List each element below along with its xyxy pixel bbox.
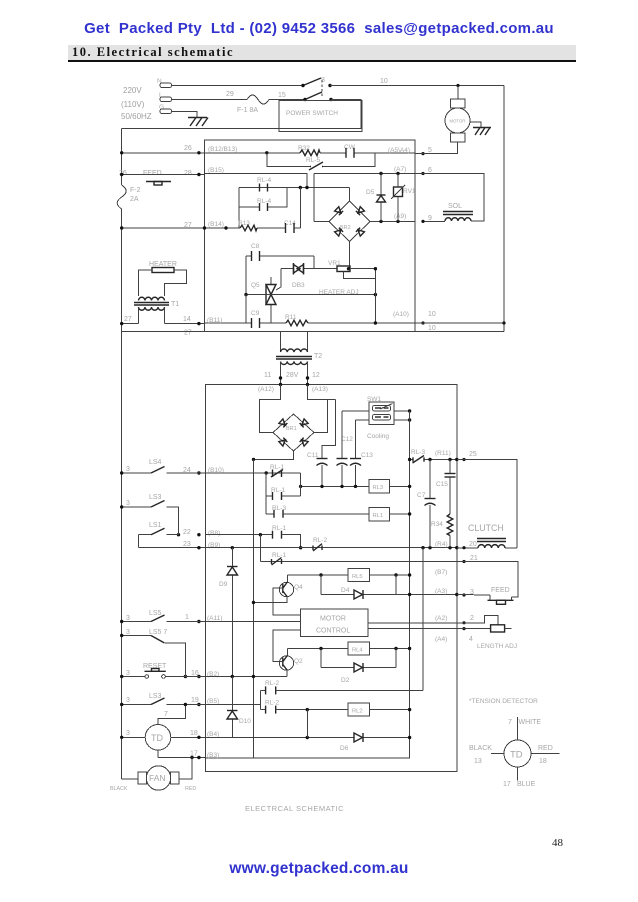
svg-text:POWER SWITCH: POWER SWITCH [286, 110, 338, 117]
wire 14 (B11) [165, 316, 223, 325]
svg-text:14: 14 [183, 316, 191, 323]
svg-text:(A10): (A10) [393, 311, 409, 318]
svg-text:27: 27 [124, 316, 132, 323]
svg-text:(B3): (B3) [207, 752, 219, 759]
wire 21 row [457, 555, 518, 597]
svg-text:2: 2 [470, 615, 474, 622]
diode D5 [366, 174, 386, 222]
svg-text:LS3: LS3 [149, 693, 162, 700]
svg-text:3: 3 [126, 629, 130, 636]
svg-text:RL-3: RL-3 [411, 449, 425, 456]
svg-text:LS5 7: LS5 7 [149, 629, 167, 636]
svg-text:BLUE: BLUE [517, 781, 536, 788]
terminal G [159, 104, 172, 114]
svg-text:LS3: LS3 [149, 494, 162, 501]
right vertical wire 10 [503, 86, 505, 332]
svg-text:RL-1: RL-1 [272, 552, 286, 559]
wire 9 (A9) row [314, 213, 432, 223]
wire 18 (B4) row with D6 [171, 710, 411, 752]
svg-text:23: 23 [183, 541, 191, 548]
svg-text:25: 25 [469, 451, 477, 458]
svg-text:(A5\A4): (A5\A4) [388, 147, 410, 154]
relay contact RL-4 (lower) [239, 188, 287, 212]
power switch box [279, 101, 362, 132]
svg-text:Q5: Q5 [251, 282, 260, 289]
svg-text:F-2: F-2 [130, 187, 141, 194]
limit switch LS4 [120, 459, 205, 475]
power switch pole 2 [303, 80, 332, 101]
svg-text:LENGTH ADJ: LENGTH ADJ [477, 643, 517, 650]
svg-text:RL-4: RL-4 [257, 177, 271, 184]
vertical rail x423 [422, 548, 424, 691]
relay coil RL4 row [287, 642, 411, 655]
capacitor CW [344, 144, 356, 158]
node (A13) [306, 383, 328, 393]
SW1 left wires [342, 411, 369, 420]
wire G to ground [171, 112, 197, 118]
svg-text:RL4: RL4 [352, 648, 363, 654]
feed solenoid [457, 587, 514, 604]
svg-text:12: 12 [312, 372, 320, 379]
svg-text:RL-2: RL-2 [313, 537, 327, 544]
wire (R11) 25 row [408, 450, 477, 461]
terminal L [159, 92, 172, 102]
wire 28 (B15) row [184, 167, 307, 188]
svg-text:C13: C13 [361, 452, 373, 459]
svg-text:3: 3 [126, 670, 130, 677]
svg-text:L: L [159, 92, 163, 99]
svg-text:R34: R34 [431, 521, 443, 528]
svg-text:DB3: DB3 [292, 282, 305, 289]
svg-text:RED: RED [185, 786, 196, 792]
svg-text:5: 5 [428, 147, 432, 154]
svg-text:Q4: Q4 [294, 584, 303, 591]
motor M1 [415, 99, 470, 154]
node (A12) [258, 383, 282, 393]
svg-text:(B15): (B15) [208, 167, 224, 174]
power switch pole 1 [301, 78, 331, 87]
svg-text:WHITE: WHITE [519, 719, 542, 726]
svg-text:(B11): (B11) [207, 317, 222, 324]
wire 7 to time delay [158, 703, 187, 725]
svg-text:(A2): (A2) [435, 615, 447, 622]
wire 1 (A11) row [185, 614, 301, 623]
relay contact RL-2 (upper pair) [261, 680, 423, 710]
svg-text:(B8): (B8) [208, 530, 220, 537]
svg-text:6: 6 [428, 167, 432, 174]
svg-text:RED: RED [538, 745, 553, 752]
SW1 right wires [394, 409, 411, 421]
diac DB3 [276, 263, 337, 290]
wire 19 (B5) row [191, 697, 261, 706]
relay contact RL-1 (row 22) [272, 525, 302, 549]
svg-text:27: 27 [184, 330, 192, 337]
motor control module [301, 609, 368, 637]
wire N switch to motor node [330, 85, 504, 87]
svg-text:4: 4 [469, 636, 473, 643]
svg-text:50/60HZ: 50/60HZ [121, 112, 152, 121]
svg-text:Cooling: Cooling [367, 433, 389, 440]
switch SW1 cooling [367, 396, 394, 440]
svg-text:10: 10 [380, 78, 388, 85]
svg-text:TD: TD [510, 750, 523, 761]
relay contact RL-4 (upper) [257, 177, 271, 192]
relay contact RL-1 (row 21) [260, 535, 456, 565]
relay contact RL-3 (row 25) [411, 449, 425, 463]
svg-text:7: 7 [164, 711, 168, 718]
svg-text:D10: D10 [239, 718, 251, 725]
svg-text:SOL: SOL [448, 203, 462, 210]
svg-text:RL2: RL2 [352, 709, 363, 715]
capacitor C7 [417, 460, 436, 548]
svg-text:(B5): (B5) [207, 698, 219, 705]
top input terminals and labels [121, 86, 152, 121]
svg-text:RL5: RL5 [352, 574, 363, 580]
transformer T2 [276, 332, 322, 385]
svg-text:FEED: FEED [491, 587, 510, 594]
wire (A10) outside [415, 321, 506, 324]
wire 16 (B2) row [184, 670, 287, 678]
svg-text:(A11): (A11) [207, 615, 222, 622]
triac Q5 [251, 277, 276, 323]
wire 22 (B8) row [177, 529, 273, 537]
svg-text:10: 10 [428, 311, 436, 318]
svg-text:28: 28 [184, 170, 192, 177]
limit switch LS1 [139, 522, 179, 548]
svg-text:FEED: FEED [143, 170, 162, 177]
svg-text:RL-1: RL-1 [272, 525, 286, 532]
relay coil RL1 [369, 508, 411, 522]
svg-text:3: 3 [126, 500, 130, 507]
relay coil RL3 [369, 480, 411, 494]
svg-text:(A4): (A4) [435, 636, 447, 643]
limit switch LS5 [120, 610, 205, 623]
svg-text:10: 10 [428, 325, 436, 332]
svg-text:D4: D4 [341, 587, 350, 594]
svg-text:D9: D9 [219, 581, 228, 588]
transistor Q4 [252, 575, 303, 615]
T2 tap labels [264, 372, 320, 379]
svg-text:MOTOR: MOTOR [450, 119, 466, 124]
svg-text:T2: T2 [314, 353, 322, 360]
svg-text:RL1: RL1 [373, 513, 384, 519]
svg-text:C7: C7 [417, 492, 426, 499]
transformer T1 [134, 297, 179, 323]
fuse F2 [117, 185, 140, 779]
wire to motor [456, 84, 459, 99]
clutch loop wire 25 [457, 460, 517, 549]
capacitor C14 [284, 220, 296, 233]
svg-text:(R11): (R11) [435, 450, 451, 457]
terminal N [157, 78, 172, 88]
svg-text:11: 11 [264, 372, 271, 379]
wire 20 (R4) labels [435, 541, 477, 549]
svg-text:3: 3 [126, 466, 130, 473]
svg-text:(A3): (A3) [435, 588, 447, 595]
svg-text:T1: T1 [171, 301, 179, 308]
wire 27 (B14) row [120, 188, 300, 230]
svg-text:(B12/B13): (B12/B13) [208, 146, 237, 153]
fan motor [110, 758, 196, 793]
svg-text:Q2: Q2 [294, 658, 303, 665]
svg-text:19: 19 [191, 697, 199, 704]
long bottom wire 27 [122, 330, 504, 337]
svg-text:TD: TD [151, 733, 163, 743]
svg-text:R11: R11 [285, 314, 297, 321]
main control box (upper) [205, 140, 416, 332]
wire 27 T1 left [120, 316, 139, 325]
wire L with fuse F1 [171, 91, 305, 114]
length adjust potentiometer [457, 615, 517, 650]
svg-text:CONTROL: CONTROL [316, 628, 350, 635]
svg-text:ELECTRCAL SCHEMATIC: ELECTRCAL SCHEMATIC [245, 804, 344, 813]
svg-text:2A: 2A [130, 196, 139, 203]
inner left rail (bridge negative) [253, 459, 255, 758]
capacitor C15 [436, 460, 456, 515]
wire 17 (B3) row [158, 751, 219, 760]
svg-text:(R4): (R4) [435, 541, 448, 548]
vertical links in contact cluster [266, 473, 300, 514]
heater element [139, 261, 187, 296]
diode D10 [227, 677, 251, 738]
svg-text:(A13): (A13) [312, 386, 328, 393]
wire 23 (B9) long row [139, 541, 459, 549]
relay contact RL-1 (second) [266, 486, 300, 500]
relay contact RL-2 (lower pair) [261, 700, 348, 714]
svg-text:7: 7 [508, 719, 512, 726]
lower control box [205, 385, 456, 772]
svg-text:RL-2: RL-2 [265, 700, 279, 707]
svg-text:RL-5: RL-5 [306, 157, 320, 164]
svg-text:(B7): (B7) [435, 569, 447, 576]
capacitor C11 [307, 400, 336, 487]
relay contact RL-3 (to RL1) [266, 505, 369, 518]
svg-text:(110V): (110V) [121, 100, 145, 109]
limit switch LS3 (upper) [120, 494, 179, 535]
svg-text:(A7): (A7) [394, 166, 406, 173]
svg-text:28V: 28V [286, 372, 299, 379]
relay contact RL-5 [267, 153, 375, 170]
svg-text:22: 22 [183, 529, 191, 536]
svg-text:BLACK: BLACK [469, 745, 492, 752]
inner right rail [205, 411, 409, 758]
clutch coil [457, 523, 517, 548]
limit switch LS3 (lower) [120, 693, 205, 706]
resistor R11 [285, 314, 308, 326]
capacitor C13 [350, 420, 373, 486]
svg-text:C9: C9 [251, 310, 260, 317]
wire 6 (A7) row [314, 166, 432, 221]
svg-text:3: 3 [126, 697, 130, 704]
wire 6 to solenoid [415, 172, 484, 221]
solenoid SOL [421, 203, 473, 223]
svg-text:MOTOR: MOTOR [320, 616, 346, 623]
svg-text:17: 17 [503, 781, 511, 788]
svg-text:*TENSION DETECTOR: *TENSION DETECTOR [469, 698, 538, 705]
svg-text:20: 20 [469, 541, 477, 548]
svg-text:RL3: RL3 [373, 485, 384, 491]
motor ground [470, 122, 491, 135]
svg-text:(A12): (A12) [258, 386, 274, 393]
svg-text:(A9): (A9) [394, 213, 406, 220]
wire L to left rail [122, 100, 361, 129]
relay contact RL-2 (on row 23) [313, 537, 327, 551]
transistor Q2 [273, 630, 303, 677]
capacitor C9 [251, 310, 260, 328]
relay coil RL5 row [287, 569, 447, 582]
limit switch LS5-7 [120, 629, 185, 677]
wire 26 (B12/B13) row [120, 145, 415, 155]
svg-text:D5: D5 [366, 189, 375, 196]
svg-text:29: 29 [226, 91, 234, 98]
svg-text:RL-2: RL-2 [265, 680, 279, 687]
svg-text:18: 18 [539, 758, 547, 765]
svg-text:D6: D6 [340, 745, 349, 752]
svg-text:BR1: BR1 [286, 426, 297, 432]
left rail [121, 128, 123, 185]
svg-text:FAN: FAN [149, 773, 166, 783]
diode D4 row / wire 3 (A3) [321, 575, 458, 599]
svg-text:1: 1 [185, 614, 189, 621]
FEED switch (left) [119, 170, 205, 185]
wire 4 (A4) row [368, 629, 457, 643]
bridge rectifier BR1 [252, 385, 336, 462]
svg-text:LS5: LS5 [149, 610, 162, 617]
reset pushbutton [120, 663, 205, 678]
wire 5 (A5 A4) [388, 147, 458, 155]
svg-text:26: 26 [184, 145, 192, 152]
svg-text:(B14): (B14) [208, 221, 224, 228]
capacitor C12 [337, 411, 354, 486]
wire N to power switch [171, 85, 303, 87]
node line to BR2 [239, 186, 350, 189]
capacitor bus to RL3 [299, 485, 369, 488]
svg-text:21: 21 [470, 555, 478, 562]
diode D9 [219, 548, 238, 677]
ground symbol (mains) [188, 118, 208, 127]
diode D2 row [321, 649, 396, 685]
resistor R34 [431, 514, 453, 548]
svg-text:3: 3 [126, 615, 130, 622]
resistor R32 [298, 145, 320, 156]
capacitor C8 [246, 243, 314, 295]
varistor RV1 [391, 174, 416, 222]
heater adj wire [244, 289, 377, 296]
relay contact RL-1 (row 24) [270, 464, 284, 477]
svg-text:LS4: LS4 [149, 459, 162, 466]
svg-text:D2: D2 [341, 677, 350, 684]
potentiometer VR1 [328, 260, 377, 323]
svg-text:18: 18 [190, 730, 198, 737]
svg-text:C15: C15 [436, 481, 448, 488]
svg-text:BLACK: BLACK [110, 786, 128, 792]
svg-text:CLUTCH: CLUTCH [468, 523, 504, 533]
svg-text:LS1: LS1 [149, 522, 162, 529]
svg-text:RV1: RV1 [403, 188, 416, 195]
resistor R13 [238, 220, 257, 231]
wire 24 (B10) row [183, 467, 301, 475]
svg-text:C12: C12 [341, 436, 353, 443]
svg-text:C8: C8 [251, 243, 260, 250]
tension detector TD (right) [469, 717, 560, 788]
svg-text:220V: 220V [123, 86, 142, 95]
bridge rectifier BR2 [329, 188, 370, 271]
svg-text:13: 13 [474, 758, 482, 765]
relay coil RL2 [348, 703, 411, 716]
wire 2 (A2) row [368, 615, 457, 623]
svg-text:15: 15 [278, 92, 286, 99]
svg-text:N: N [157, 78, 162, 85]
svg-text:F-1 8A: F-1 8A [237, 107, 258, 114]
time delay TD (left) [120, 725, 171, 758]
wire 14/(A10) row with C9 and R11 [205, 295, 436, 332]
svg-text:3: 3 [126, 730, 130, 737]
